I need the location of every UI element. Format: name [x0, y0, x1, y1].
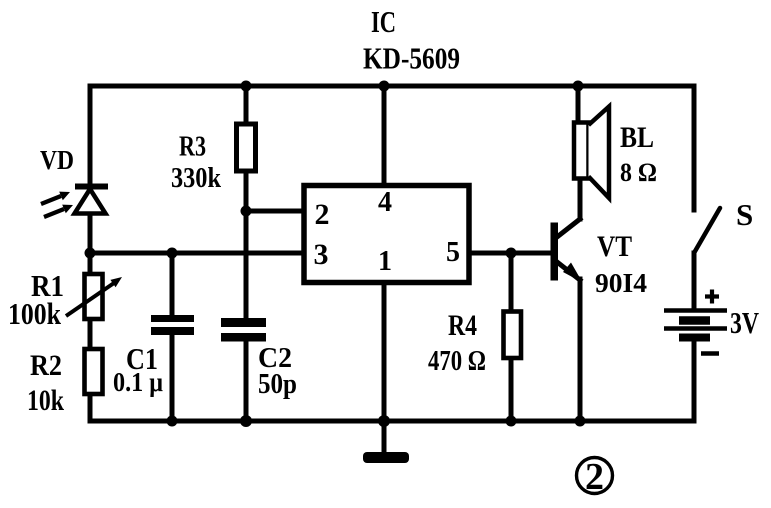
svg-text:100k: 100k [8, 296, 62, 331]
svg-text:50p: 50p [258, 368, 297, 400]
svg-text:S: S [736, 197, 753, 232]
svg-text:2: 2 [585, 456, 604, 498]
svg-text:KD-5609: KD-5609 [363, 41, 460, 76]
svg-text:R3: R3 [179, 131, 206, 163]
svg-text:4: 4 [378, 187, 392, 218]
svg-text:BL: BL [620, 121, 654, 154]
svg-text:8 Ω: 8 Ω [620, 158, 657, 187]
svg-text:470 Ω: 470 Ω [428, 345, 486, 377]
svg-text:R4: R4 [448, 309, 477, 342]
svg-text:2: 2 [315, 198, 330, 231]
svg-text:5: 5 [446, 237, 460, 268]
svg-text:90I4: 90I4 [595, 268, 647, 298]
svg-text:1: 1 [378, 246, 392, 277]
svg-text:3: 3 [314, 238, 329, 271]
svg-text:VT: VT [597, 230, 632, 263]
svg-text:0.1 μ: 0.1 μ [113, 367, 163, 397]
svg-text:330k: 330k [171, 162, 222, 194]
svg-text:VD: VD [40, 145, 74, 175]
svg-text:R2: R2 [30, 349, 62, 382]
svg-text:10k: 10k [27, 384, 64, 417]
svg-text:3V: 3V [730, 305, 759, 340]
svg-text:IC: IC [371, 4, 396, 39]
